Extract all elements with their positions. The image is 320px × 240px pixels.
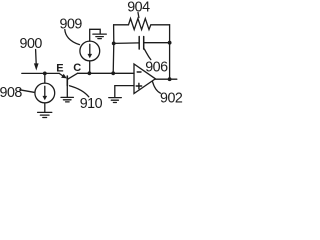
junction dot at 904 left leg	[111, 71, 115, 75]
resistor R904	[114, 19, 170, 30]
plus sign	[136, 83, 141, 88]
wire input node	[22, 72, 59, 74]
label 906	[145, 59, 168, 75]
transistor collector	[68, 73, 78, 79]
op-amp U902 triangle	[134, 64, 155, 94]
transistor base bar	[66, 76, 68, 86]
leader 909	[65, 30, 80, 45]
label 902	[160, 90, 183, 106]
ground under I908	[38, 111, 52, 113]
leader 908	[20, 90, 34, 93]
current source I908	[44, 73, 46, 83]
leader arrow for 900	[35, 50, 38, 65]
capacitor C906	[114, 42, 139, 45]
svg-text:C: C	[73, 62, 81, 74]
svg-text:906: 906	[145, 59, 168, 75]
base wire to ground	[66, 86, 68, 97]
svg-text:908: 908	[0, 85, 22, 101]
svg-text:902: 902	[160, 90, 183, 106]
label C	[73, 62, 81, 74]
junction dot at 909 source	[88, 71, 92, 75]
leader 910	[70, 86, 89, 97]
node A junction dot	[43, 72, 47, 76]
wire from I909 bottom to collector node	[89, 61, 91, 73]
current source I909	[80, 41, 100, 61]
leader 904	[137, 13, 140, 18]
label 908	[0, 85, 22, 101]
ground at I909 top	[93, 33, 106, 35]
leader 906	[144, 49, 151, 60]
right leg of RC network	[169, 25, 171, 79]
label 909	[60, 16, 83, 32]
non-inverting input wire	[115, 86, 134, 97]
minus sign	[137, 71, 141, 73]
output wire	[155, 78, 176, 80]
label E	[56, 63, 63, 75]
left leg of RC network	[112, 25, 115, 74]
label 910	[80, 96, 103, 112]
svg-text:E: E	[56, 63, 63, 75]
collector wire to op-amp	[78, 72, 135, 74]
wire from I909 top to ground	[90, 29, 101, 41]
svg-text:910: 910	[80, 96, 103, 112]
junction dots on legs at capacitor level	[112, 42, 116, 46]
ground under base	[61, 96, 73, 98]
svg-text:909: 909	[60, 16, 83, 32]
leader 902	[153, 82, 161, 94]
transistor Q910 emitter arrow	[59, 73, 63, 76]
label 904	[127, 0, 150, 16]
ground at op-amp + input	[109, 97, 122, 99]
junction dot at feedback/output	[168, 77, 172, 81]
label 900	[20, 36, 43, 52]
svg-text:900: 900	[20, 36, 43, 52]
